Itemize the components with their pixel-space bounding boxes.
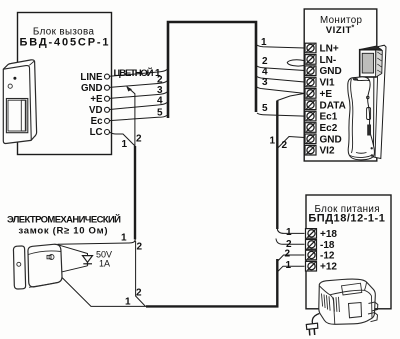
monitor-side wire 4 to VI1: [257, 77, 305, 83]
svg-text:3: 3: [262, 77, 268, 88]
GND tap arrow and lock wire 2: [127, 87, 135, 146]
call-unit front panel drawing: [3, 60, 36, 144]
monitor terminal labels: [320, 44, 346, 157]
svg-text:2: 2: [136, 288, 142, 299]
call-unit terminal circles: [105, 74, 110, 134]
svg-text:-18: -18: [320, 240, 335, 251]
svg-text:+E: +E: [320, 89, 333, 100]
wire 2 continues down: [136, 241, 146, 306]
svg-text:LC: LC: [90, 127, 103, 138]
svg-text:1: 1: [286, 227, 292, 238]
svg-text:ЭЛЕКТРОМЕХАНИЧЕСКИЙ: ЭЛЕКТРОМЕХАНИЧЕСКИЙ: [7, 214, 121, 226]
svg-text:1: 1: [270, 136, 276, 147]
svg-text:2: 2: [137, 242, 143, 253]
svg-text:LN-: LN-: [320, 55, 337, 66]
power cable trunk monitor side: [276, 101, 278, 230]
svg-text:DATA: DATA: [320, 100, 346, 111]
PSU terminal labels: [320, 229, 337, 273]
svg-text:2: 2: [282, 140, 288, 151]
wire +E to cable: [110, 92, 167, 98]
svg-text:5: 5: [157, 108, 163, 119]
monitor handset drawing: [348, 45, 386, 160]
monitor terminal screws: [305, 43, 316, 155]
svg-text:2: 2: [136, 134, 142, 145]
svg-text:5: 5: [262, 103, 268, 114]
svg-text:+18: +18: [320, 229, 337, 240]
svg-text:LN+: LN+: [320, 44, 339, 55]
branch wire 2 to -18: [276, 239, 305, 245]
LC wire to junction: [110, 132, 136, 146]
lock drawing: [13, 244, 62, 289]
svg-text:GND: GND: [320, 66, 342, 77]
svg-text:1: 1: [122, 139, 128, 150]
svg-text:1A: 1A: [99, 259, 110, 269]
call-unit title: [20, 27, 109, 49]
svg-text:Ec1: Ec1: [320, 112, 338, 123]
left cable trunk: [134, 146, 136, 239]
svg-text:Ec2: Ec2: [320, 123, 338, 134]
diode bottom diagonal: [58, 266, 88, 273]
svg-text:+12: +12: [320, 262, 337, 273]
branch wire 1 to +18: [277, 229, 304, 233]
branch wire 2 to -12: [277, 255, 304, 262]
svg-text:1: 1: [121, 233, 127, 244]
svg-text:GND: GND: [81, 83, 103, 94]
svg-text:VD: VD: [89, 105, 102, 116]
svg-text:1: 1: [125, 297, 131, 308]
monitor-side wire 5 to Ec1: [257, 113, 305, 116]
svg-text:4: 4: [262, 67, 268, 78]
monitor-side wire 1 to LN+: [257, 45, 305, 48]
wire VD to cable: [110, 103, 167, 110]
svg-text:+E: +E: [90, 94, 103, 105]
svg-text:LINE: LINE: [80, 72, 103, 83]
branch wire 1 to +12: [277, 266, 304, 272]
branch wire 2 to monitor GND: [277, 137, 304, 149]
svg-text:GND: GND: [320, 134, 342, 145]
svg-text:*: *: [352, 25, 355, 32]
PSU adapter drawing: [319, 279, 378, 324]
wire Ec to cable: [110, 115, 167, 120]
svg-text:2: 2: [262, 56, 268, 67]
svg-text:Ec: Ec: [91, 116, 103, 127]
monitor box: [304, 9, 377, 161]
lock bottom wire: [58, 274, 146, 307]
PSU mains cord and plug: [306, 314, 319, 336]
svg-text:-12: -12: [320, 251, 335, 262]
svg-text:ЦВЕТНОЙ: ЦВЕТНОЙ: [114, 67, 154, 79]
svg-text:2: 2: [285, 249, 291, 260]
svg-text:замок (R≥ 10 Ом): замок (R≥ 10 Ом): [19, 226, 108, 237]
PSU terminal screws: [306, 229, 317, 271]
main cable call-unit to monitor: [168, 22, 256, 118]
diode top diagonal: [58, 245, 88, 256]
monitor-side wire 3 to +E: [257, 87, 305, 93]
svg-text:4: 4: [157, 96, 163, 107]
coiled spare wire on LN-: [287, 60, 304, 66]
wire LINE to cable: [110, 70, 167, 77]
svg-text:1: 1: [286, 260, 292, 271]
diode D1 50V 1A: [83, 256, 93, 266]
svg-text:2: 2: [157, 75, 163, 86]
svg-text:БПД18/12-1-1: БПД18/12-1-1: [308, 212, 385, 224]
svg-text:1: 1: [261, 37, 267, 48]
PSU box: [306, 195, 391, 309]
call-unit box БВД-405CP-1: [18, 13, 112, 155]
call-unit terminal labels: [80, 72, 103, 138]
lower cable trunk to PSU: [146, 259, 277, 306]
wire GND to cable: [110, 81, 167, 87]
svg-text:3: 3: [157, 85, 163, 96]
svg-text:VIZIT: VIZIT: [326, 25, 352, 36]
monitor-side wire 2 to GND: [257, 66, 305, 71]
lock branch: wire 1 hooks to lock top wire: [58, 239, 136, 244]
power cable: +E branch diagonal: [277, 93, 304, 100]
svg-text:VI1: VI1: [320, 78, 335, 89]
svg-text:VI2: VI2: [320, 146, 335, 157]
